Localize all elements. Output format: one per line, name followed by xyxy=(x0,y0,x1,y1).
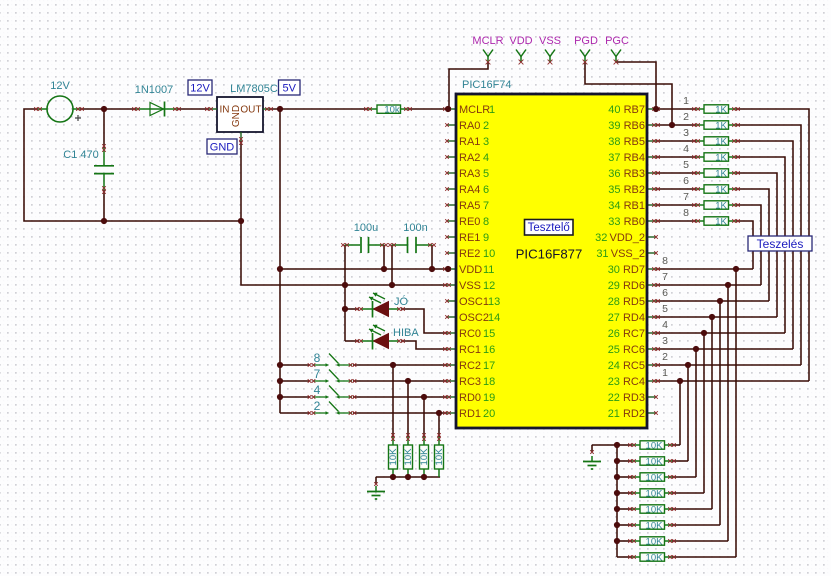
svg-text:23 RC4: 23 RC4 xyxy=(608,376,645,388)
svg-text:1K: 1K xyxy=(715,120,727,131)
svg-text:14: 14 xyxy=(488,312,500,324)
svg-text:10K: 10K xyxy=(646,488,664,499)
svg-text:C1 470: C1 470 xyxy=(63,149,98,161)
svg-text:VSS: VSS xyxy=(459,280,481,292)
svg-text:VDD: VDD xyxy=(509,35,532,47)
svg-text:RA3: RA3 xyxy=(459,168,480,180)
svg-text:12: 12 xyxy=(483,280,495,292)
svg-text:17: 17 xyxy=(483,360,495,372)
svg-text:RC3: RC3 xyxy=(459,376,481,388)
svg-text:10K: 10K xyxy=(388,448,399,466)
svg-text:RE2: RE2 xyxy=(459,248,480,260)
svg-text:1K: 1K xyxy=(715,104,727,115)
svg-text:Tesztelő: Tesztelő xyxy=(528,222,570,234)
svg-text:10K: 10K xyxy=(403,448,414,466)
svg-text:11: 11 xyxy=(483,264,494,276)
svg-text:26 RC7: 26 RC7 xyxy=(608,328,645,340)
svg-text:4: 4 xyxy=(662,319,668,331)
svg-text:40 RB7: 40 RB7 xyxy=(608,104,645,116)
svg-text:RC2: RC2 xyxy=(459,360,481,372)
svg-text:RC0: RC0 xyxy=(459,328,481,340)
svg-text:25 RC6: 25 RC6 xyxy=(608,344,645,356)
svg-text:2: 2 xyxy=(683,111,689,123)
svg-text:3: 3 xyxy=(683,127,689,139)
svg-text:5V: 5V xyxy=(283,82,297,94)
svg-text:10: 10 xyxy=(483,248,495,260)
svg-text:VDD: VDD xyxy=(459,264,482,276)
svg-text:Teszelés: Teszelés xyxy=(757,237,804,251)
svg-text:6: 6 xyxy=(662,287,668,299)
svg-text:OUT: OUT xyxy=(240,105,261,116)
svg-text:1: 1 xyxy=(662,367,668,379)
svg-text:5: 5 xyxy=(683,159,689,171)
svg-text:PGC: PGC xyxy=(605,35,629,47)
svg-text:8: 8 xyxy=(683,207,689,219)
svg-text:OSC2: OSC2 xyxy=(459,312,489,324)
svg-text:1: 1 xyxy=(683,95,689,107)
svg-text:10K: 10K xyxy=(646,472,664,483)
svg-text:39 RB6: 39 RB6 xyxy=(608,120,645,132)
svg-text:10K: 10K xyxy=(434,448,445,466)
svg-text:RC1: RC1 xyxy=(459,344,481,356)
svg-text:37 RB4: 37 RB4 xyxy=(608,152,645,164)
svg-text:10K: 10K xyxy=(646,440,664,451)
svg-text:15: 15 xyxy=(483,328,495,340)
svg-text:10K: 10K xyxy=(646,456,664,467)
svg-text:1: 1 xyxy=(489,104,495,116)
svg-text:32 VDD_2: 32 VDD_2 xyxy=(595,232,645,244)
svg-text:6: 6 xyxy=(483,184,489,196)
svg-text:RD0: RD0 xyxy=(459,392,481,404)
svg-text:21 RD2: 21 RD2 xyxy=(608,408,645,420)
svg-text:RA4: RA4 xyxy=(459,184,480,196)
svg-text:HIBA: HIBA xyxy=(393,327,419,339)
svg-text:GND: GND xyxy=(210,141,235,153)
svg-text:PIC16F74: PIC16F74 xyxy=(462,79,512,91)
svg-text:10K: 10K xyxy=(646,520,664,531)
svg-text:RE1: RE1 xyxy=(459,232,480,244)
svg-text:100u: 100u xyxy=(354,222,378,234)
svg-text:10k: 10k xyxy=(384,104,400,115)
svg-text:JÓ: JÓ xyxy=(394,295,409,308)
svg-text:8: 8 xyxy=(483,216,489,228)
svg-text:RA1: RA1 xyxy=(459,136,480,148)
svg-text:6: 6 xyxy=(683,175,689,187)
svg-text:8: 8 xyxy=(662,255,668,267)
svg-text:7: 7 xyxy=(314,367,321,381)
svg-text:2: 2 xyxy=(483,120,489,132)
svg-text:9: 9 xyxy=(483,232,489,244)
svg-text:LM7805C: LM7805C xyxy=(230,83,278,95)
svg-text:12V: 12V xyxy=(50,80,70,92)
svg-text:10K: 10K xyxy=(646,552,664,563)
svg-text:36 RB3: 36 RB3 xyxy=(608,168,645,180)
svg-text:OSC1: OSC1 xyxy=(459,296,489,308)
svg-text:38 RB5: 38 RB5 xyxy=(608,136,645,148)
svg-text:7: 7 xyxy=(483,200,489,212)
svg-text:RA2: RA2 xyxy=(459,152,480,164)
svg-text:10K: 10K xyxy=(646,504,664,515)
svg-text:100n: 100n xyxy=(403,222,427,234)
svg-text:PIC16F877: PIC16F877 xyxy=(516,247,583,262)
svg-text:1K: 1K xyxy=(715,216,727,227)
svg-text:IN: IN xyxy=(220,105,230,116)
svg-text:33 RB0: 33 RB0 xyxy=(608,216,645,228)
svg-text:10K: 10K xyxy=(419,448,430,466)
svg-text:VSS: VSS xyxy=(539,35,561,47)
svg-text:RE0: RE0 xyxy=(459,216,480,228)
svg-text:8: 8 xyxy=(314,351,321,365)
svg-text:13: 13 xyxy=(488,296,500,308)
svg-text:16: 16 xyxy=(483,344,495,356)
svg-text:1K: 1K xyxy=(715,184,727,195)
svg-text:7: 7 xyxy=(662,271,668,283)
svg-text:MCLR: MCLR xyxy=(459,104,490,116)
svg-text:3: 3 xyxy=(662,335,668,347)
svg-text:24 RC5: 24 RC5 xyxy=(608,360,645,372)
svg-text:4: 4 xyxy=(683,143,689,155)
svg-text:29 RD6: 29 RD6 xyxy=(608,280,645,292)
svg-text:5: 5 xyxy=(483,168,489,180)
svg-text:19: 19 xyxy=(483,392,495,404)
svg-text:35 RB2: 35 RB2 xyxy=(608,184,645,196)
svg-text:2: 2 xyxy=(314,399,321,413)
svg-text:MCLR: MCLR xyxy=(472,35,503,47)
svg-text:4: 4 xyxy=(314,383,321,397)
svg-text:1K: 1K xyxy=(715,200,727,211)
svg-text:27 RD4: 27 RD4 xyxy=(608,312,645,324)
svg-text:1N1007: 1N1007 xyxy=(135,84,174,96)
svg-text:12V: 12V xyxy=(190,82,210,94)
svg-text:2: 2 xyxy=(662,351,668,363)
svg-text:RA0: RA0 xyxy=(459,120,480,132)
svg-text:GND: GND xyxy=(231,105,242,127)
svg-text:7: 7 xyxy=(683,191,689,203)
svg-text:1K: 1K xyxy=(715,152,727,163)
svg-text:34 RB1: 34 RB1 xyxy=(608,200,645,212)
svg-text:3: 3 xyxy=(483,136,489,148)
svg-text:30 RD7: 30 RD7 xyxy=(608,264,645,276)
svg-text:10K: 10K xyxy=(646,536,664,547)
svg-text:PGD: PGD xyxy=(574,35,598,47)
svg-text:RA5: RA5 xyxy=(459,200,480,212)
svg-text:20: 20 xyxy=(483,408,495,420)
svg-text:31 VSS_2: 31 VSS_2 xyxy=(596,248,645,260)
svg-text:1K: 1K xyxy=(715,168,727,179)
svg-text:4: 4 xyxy=(483,152,489,164)
svg-text:5: 5 xyxy=(662,303,668,315)
svg-text:18: 18 xyxy=(483,376,495,388)
svg-text:28 RD5: 28 RD5 xyxy=(608,296,645,308)
svg-text:1K: 1K xyxy=(715,136,727,147)
svg-text:RD1: RD1 xyxy=(459,408,481,420)
svg-text:22 RD3: 22 RD3 xyxy=(608,392,645,404)
